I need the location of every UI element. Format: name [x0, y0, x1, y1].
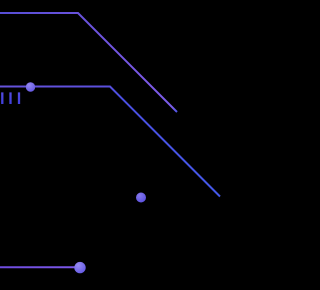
node dot D2: isolated pad — [136, 193, 146, 203]
connector pins P1-P3: three vertical ticks at left edge — [2, 92, 19, 104]
wire W3: bottom trace — [0, 266, 80, 268]
junction dot D1 on wire W2 — [26, 82, 35, 91]
wire W2: middle trace, horizontal then 45-degree diagonal to lower right — [0, 87, 220, 197]
terminal dot D3 at end of wire W3 — [74, 262, 85, 273]
wire W1: top trace, horizontal then 45-degree diagonal — [0, 13, 177, 112]
